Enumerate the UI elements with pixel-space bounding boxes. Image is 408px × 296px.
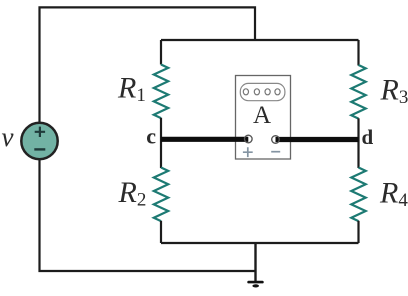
wire: right branch top segment [357,40,359,66]
resistor R3 [351,65,365,119]
wire: left branch bottom segment [160,221,162,243]
ammeter terminal window (pill with 4 holes) [240,83,285,100]
svg-text:R4: R4 [379,177,408,211]
ground [249,282,263,287]
resistor R2 [154,168,168,222]
voltage source v [21,123,57,159]
wire: right branch bottom segment [357,221,359,243]
svg-text:R1: R1 [117,72,146,106]
wire: right branch middle segment (node d) [357,118,359,168]
wire: left branch middle segment (node c) [160,118,162,168]
wire: outer loop top (source top to bridge top) [40,7,256,122]
svg-text:R2: R2 [118,176,147,210]
svg-text:R3: R3 [380,74,408,108]
wire: bridge top rail [161,39,359,41]
resistor R1 [154,65,168,119]
svg-text:A: A [253,102,271,129]
wire: thick lead ammeter - terminal to d [276,137,359,142]
svg-text:c: c [146,124,156,149]
wire: ground stub [254,243,256,282]
ammeter - polarity mark [271,151,280,153]
svg-text:v: v [2,122,14,152]
ammeter U1 body [236,76,291,160]
ammeter - terminal post [272,136,280,144]
wire: bridge bottom rail [161,242,359,244]
ammeter + terminal post [245,135,253,143]
svg-text:d: d [362,125,374,149]
wire: outer loop bottom (source bottom to ground stub) [40,160,257,272]
wire: thick lead c to ammeter + terminal [161,137,248,142]
resistor R4 [351,168,365,222]
ammeter + polarity mark [243,147,253,157]
wire: left branch top segment [160,40,162,65]
